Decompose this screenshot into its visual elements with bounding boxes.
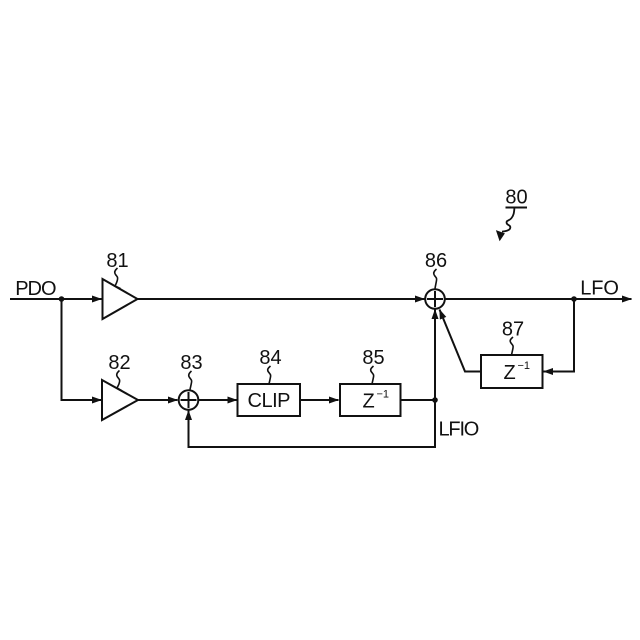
svg-text:PDO: PDO (15, 278, 56, 300)
figure reference 80 underline (506, 207, 528, 209)
svg-text:LFO: LFO (580, 277, 619, 299)
summing junction 86 (425, 289, 445, 309)
svg-text:80: 80 (505, 186, 527, 208)
leader squiggle for 87 (510, 337, 513, 355)
svg-text:LFIO: LFIO (439, 418, 479, 440)
leader squiggle for 82 (117, 371, 122, 391)
leader squiggle for 83 (189, 371, 192, 390)
block 85 delay (340, 384, 401, 416)
wire amplifier 81 output to summing junction 86 (138, 298, 425, 300)
amplifier 82 (102, 380, 138, 420)
node LFO branch junction (571, 296, 577, 302)
block 84 CLIP (238, 384, 301, 416)
wire summing junction 86 to LFO output (446, 298, 632, 300)
svg-text:−1: −1 (518, 360, 531, 372)
wire delay 85 output to node LFIO (401, 399, 436, 401)
svg-text:CLIP: CLIP (248, 390, 291, 412)
svg-text:84: 84 (259, 347, 281, 369)
wire PDO input to amplifier 81 (10, 298, 102, 300)
svg-text:87: 87 (502, 319, 524, 341)
node PDO branch junction (59, 296, 65, 302)
leader squiggle for 86 (434, 269, 437, 289)
wire summing junction 83 to CLIP block 84 (199, 399, 237, 401)
wire LFIO feedback to summing junction 83 (189, 400, 436, 447)
leader squiggle for 85 (371, 366, 374, 384)
svg-text:−1: −1 (377, 389, 390, 401)
leader squiggle for 81 (115, 268, 121, 289)
summing junction 83 (179, 390, 199, 410)
svg-text:83: 83 (180, 352, 202, 374)
svg-text:86: 86 (425, 250, 447, 272)
wire delay 87 output to summing junction 86 (440, 310, 482, 372)
svg-text:85: 85 (362, 347, 384, 369)
wire node LFIO up to summing junction 86 (434, 310, 436, 401)
block 87 delay (481, 355, 543, 388)
wire CLIP 84 to delay block 85 (301, 399, 339, 401)
svg-text:Z: Z (363, 390, 375, 412)
wire amplifier 82 output to summing junction 83 (138, 399, 178, 401)
leader squiggle for 84 (268, 366, 271, 384)
svg-text:Z: Z (504, 362, 516, 384)
svg-text:82: 82 (108, 352, 130, 374)
wire LFO branch down into delay block 87 (544, 299, 575, 372)
wire branch down to amplifier 82 (62, 299, 102, 400)
figure reference 80 curved arrow (496, 209, 515, 242)
node LFIO junction (432, 397, 438, 403)
svg-text:81: 81 (106, 250, 128, 272)
amplifier 81 (103, 279, 138, 319)
